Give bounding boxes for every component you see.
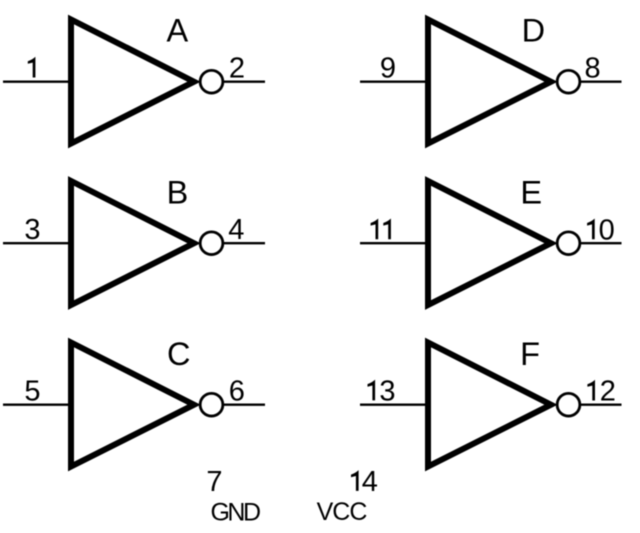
svg-text:6: 6 bbox=[229, 376, 245, 408]
svg-text:GND: GND bbox=[210, 498, 260, 526]
svg-text:VCC: VCC bbox=[317, 498, 368, 526]
svg-text:F: F bbox=[520, 336, 540, 372]
svg-text:B: B bbox=[167, 174, 189, 210]
svg-text:2: 2 bbox=[229, 52, 245, 84]
svg-text:E: E bbox=[520, 174, 542, 210]
svg-text:3: 3 bbox=[24, 214, 40, 246]
svg-text:5: 5 bbox=[24, 375, 40, 407]
svg-text:0: 0 bbox=[599, 214, 615, 246]
svg-text:3: 3 bbox=[379, 375, 395, 407]
svg-text:7: 7 bbox=[206, 466, 222, 498]
svg-text:A: A bbox=[166, 13, 188, 49]
svg-text:9: 9 bbox=[380, 52, 396, 84]
svg-text:8: 8 bbox=[585, 52, 601, 84]
svg-text:D: D bbox=[522, 13, 545, 49]
svg-text:2: 2 bbox=[600, 376, 616, 408]
svg-text:C: C bbox=[167, 336, 190, 372]
svg-text:4: 4 bbox=[362, 466, 378, 498]
svg-text:4: 4 bbox=[228, 214, 244, 246]
